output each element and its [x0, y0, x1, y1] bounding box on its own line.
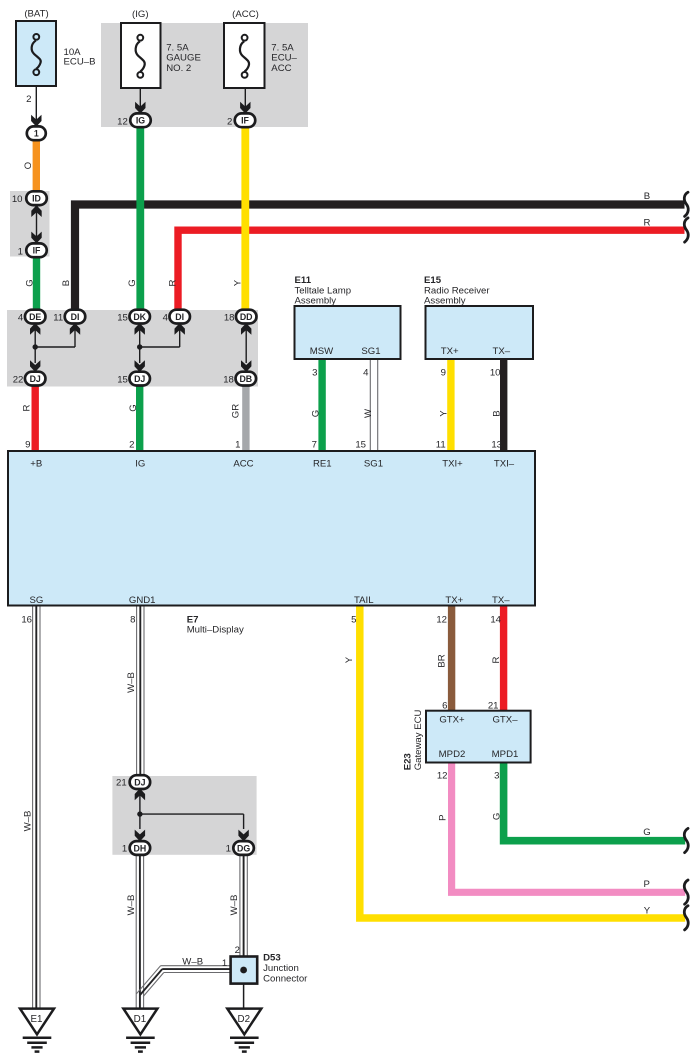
- svg-text:Y: Y: [644, 905, 651, 916]
- svg-text:IG: IG: [136, 116, 145, 126]
- svg-text:G: G: [643, 827, 650, 838]
- svg-text:DJ: DJ: [30, 374, 41, 384]
- svg-text:TX+: TX+: [441, 346, 459, 357]
- svg-text:Multi–Display: Multi–Display: [187, 624, 244, 635]
- svg-text:MPD2: MPD2: [439, 749, 466, 760]
- svg-text:2: 2: [227, 116, 232, 127]
- svg-text:4: 4: [163, 313, 169, 324]
- svg-text:(BAT): (BAT): [24, 9, 48, 20]
- svg-text:(IG): (IG): [132, 9, 149, 20]
- svg-text:DG: DG: [237, 843, 250, 853]
- svg-text:B: B: [492, 410, 503, 416]
- svg-text:DE: DE: [29, 312, 41, 322]
- svg-text:3: 3: [312, 367, 317, 378]
- svg-text:DD: DD: [240, 312, 253, 322]
- svg-text:1: 1: [18, 246, 23, 257]
- svg-text:GR: GR: [230, 404, 241, 418]
- svg-text:3: 3: [494, 771, 499, 782]
- svg-text:R: R: [21, 404, 32, 411]
- svg-text:TX–: TX–: [492, 595, 510, 606]
- svg-text:9: 9: [441, 367, 446, 378]
- svg-text:8: 8: [130, 615, 135, 626]
- svg-text:DB: DB: [239, 374, 252, 384]
- svg-text:16: 16: [21, 615, 32, 626]
- svg-text:12: 12: [117, 116, 128, 127]
- svg-text:DK: DK: [133, 312, 146, 322]
- svg-text:E11: E11: [295, 275, 312, 286]
- svg-text:ECU–B: ECU–B: [64, 56, 96, 67]
- svg-text:13: 13: [491, 440, 502, 451]
- svg-text:E1: E1: [31, 1014, 43, 1025]
- svg-text:GTX–: GTX–: [492, 714, 518, 725]
- svg-text:Y: Y: [344, 656, 355, 663]
- svg-text:DH: DH: [134, 843, 147, 853]
- svg-text:G: G: [311, 410, 322, 417]
- svg-text:D1: D1: [134, 1014, 147, 1025]
- svg-text:21: 21: [116, 778, 127, 789]
- svg-text:5: 5: [351, 615, 356, 626]
- svg-text:G: G: [492, 813, 503, 820]
- svg-text:TX–: TX–: [492, 346, 510, 357]
- svg-text:21: 21: [488, 700, 499, 711]
- svg-text:R: R: [167, 279, 178, 286]
- svg-text:6: 6: [442, 700, 447, 711]
- svg-text:P: P: [438, 814, 449, 820]
- svg-text:10: 10: [490, 367, 501, 378]
- svg-text:18: 18: [223, 375, 234, 386]
- svg-text:(ACC): (ACC): [232, 9, 259, 20]
- svg-text:11: 11: [53, 313, 63, 324]
- svg-text:TAIL: TAIL: [354, 595, 374, 606]
- svg-text:ID: ID: [32, 194, 41, 204]
- svg-text:10: 10: [12, 194, 23, 205]
- svg-text:TXI+: TXI+: [442, 459, 463, 470]
- svg-text:1: 1: [222, 958, 227, 969]
- svg-text:O: O: [23, 162, 34, 169]
- svg-text:R: R: [491, 656, 502, 663]
- svg-text:W–B: W–B: [126, 672, 137, 693]
- svg-text:D53: D53: [263, 952, 281, 963]
- svg-text:IF: IF: [33, 246, 41, 256]
- svg-text:Assembly: Assembly: [424, 295, 466, 306]
- svg-text:B: B: [644, 191, 650, 202]
- svg-text:1: 1: [122, 844, 127, 855]
- svg-text:MPD1: MPD1: [492, 749, 519, 760]
- svg-text:E23: E23: [402, 753, 413, 770]
- svg-text:G: G: [127, 279, 138, 286]
- svg-text:15: 15: [355, 440, 366, 451]
- svg-text:ACC: ACC: [233, 459, 253, 470]
- svg-text:SG1: SG1: [361, 346, 380, 357]
- svg-text:E15: E15: [424, 275, 442, 286]
- svg-text:2: 2: [235, 945, 240, 956]
- svg-text:15: 15: [117, 375, 128, 386]
- svg-text:RE1: RE1: [313, 459, 332, 470]
- svg-text:W–B: W–B: [126, 895, 137, 916]
- svg-text:BR: BR: [436, 654, 447, 667]
- svg-text:14: 14: [490, 615, 501, 626]
- svg-text:2: 2: [129, 440, 134, 451]
- svg-text:15: 15: [117, 313, 128, 324]
- svg-text:12: 12: [437, 771, 448, 782]
- svg-text:DI: DI: [175, 312, 184, 322]
- svg-text:4: 4: [363, 367, 369, 378]
- svg-text:GTX+: GTX+: [439, 714, 465, 725]
- svg-text:GND1: GND1: [129, 595, 156, 606]
- svg-text:Assembly: Assembly: [295, 295, 337, 306]
- svg-text:MSW: MSW: [310, 346, 334, 357]
- svg-text:18: 18: [224, 313, 235, 324]
- svg-text:P: P: [643, 879, 649, 890]
- svg-text:4: 4: [18, 313, 24, 324]
- svg-text:1: 1: [226, 844, 231, 855]
- svg-text:SG: SG: [29, 595, 43, 606]
- svg-text:Y: Y: [439, 410, 450, 417]
- svg-text:IG: IG: [135, 459, 145, 470]
- svg-text:R: R: [644, 218, 651, 229]
- svg-text:Connector: Connector: [263, 973, 308, 984]
- svg-text:2: 2: [26, 94, 31, 105]
- svg-text:W–B: W–B: [22, 811, 33, 832]
- svg-text:TX+: TX+: [445, 595, 463, 606]
- svg-text:Y: Y: [232, 279, 243, 286]
- svg-text:NO. 2: NO. 2: [166, 63, 191, 74]
- svg-text:B: B: [61, 280, 72, 286]
- svg-text:22: 22: [13, 375, 24, 386]
- svg-text:Gateway ECU: Gateway ECU: [413, 709, 424, 770]
- svg-text:G: G: [128, 404, 139, 411]
- svg-text:9: 9: [25, 440, 30, 451]
- svg-text:SG1: SG1: [364, 459, 383, 470]
- svg-text:G: G: [24, 279, 35, 286]
- svg-text:DJ: DJ: [134, 374, 145, 384]
- svg-text:IF: IF: [241, 116, 249, 126]
- svg-text:11: 11: [436, 440, 446, 451]
- svg-text:DJ: DJ: [134, 777, 145, 787]
- svg-text:W: W: [363, 408, 374, 418]
- svg-text:W–B: W–B: [229, 895, 240, 916]
- svg-text:TXI–: TXI–: [494, 459, 515, 470]
- svg-text:D2: D2: [238, 1014, 251, 1025]
- svg-text:12: 12: [436, 615, 447, 626]
- svg-text:DI: DI: [71, 312, 80, 322]
- svg-text:+B: +B: [30, 459, 42, 470]
- svg-text:W–B: W–B: [182, 957, 203, 968]
- svg-text:1: 1: [235, 440, 240, 451]
- svg-text:1: 1: [34, 129, 39, 139]
- svg-text:7: 7: [312, 440, 317, 451]
- svg-text:ACC: ACC: [271, 63, 291, 74]
